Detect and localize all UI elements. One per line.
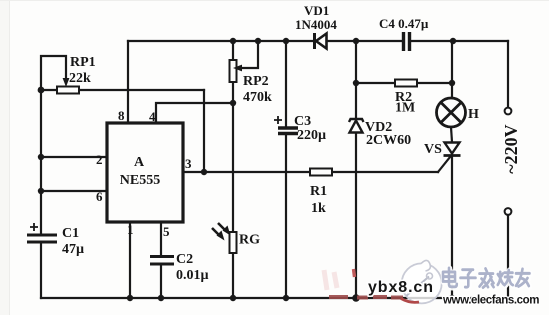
wire bottom rail bbox=[41, 297, 508, 299]
svg-text:RG: RG bbox=[239, 233, 260, 248]
svg-text:VS: VS bbox=[424, 142, 442, 157]
wire pin3 output line bbox=[183, 171, 310, 173]
svg-text:5: 5 bbox=[163, 224, 170, 239]
wire left vertical bbox=[40, 90, 42, 233]
watermark pink smudge bbox=[324, 270, 337, 290]
op-amp U1 NE555 box bbox=[107, 123, 183, 222]
wire C3 vertical bbox=[285, 41, 287, 126]
node rail VD2 bbox=[353, 38, 359, 44]
svg-text:~220V: ~220V bbox=[501, 124, 521, 173]
wire vertical 204 to pin3 line bbox=[203, 90, 205, 172]
node pin6 bbox=[38, 188, 44, 194]
svg-text:0.01µ: 0.01µ bbox=[176, 268, 209, 283]
svg-text:1: 1 bbox=[127, 222, 134, 237]
node gnd pin1 bbox=[127, 295, 133, 301]
node out bbox=[201, 169, 207, 175]
wire RG vertical bbox=[232, 103, 234, 232]
wire right vertical lower bbox=[507, 215, 509, 298]
wire right vertical upper bbox=[507, 41, 509, 107]
node rail RP2 bbox=[230, 38, 236, 44]
svg-text:H: H bbox=[468, 107, 479, 122]
watermark red dashes rail bbox=[329, 295, 403, 300]
svg-text:1k: 1k bbox=[311, 201, 326, 216]
lamp H bbox=[437, 98, 466, 127]
watermark red dash VD2 line bbox=[354, 269, 355, 277]
node RP1 left bbox=[38, 87, 45, 94]
svg-text:C4 0.47µ: C4 0.47µ bbox=[379, 16, 429, 31]
wire pin8 bbox=[127, 41, 129, 123]
potentiometer RP2 bbox=[230, 60, 243, 82]
node gnd C3 bbox=[283, 295, 289, 301]
node RP2 bottom bbox=[230, 100, 236, 106]
wire RP2 top bbox=[232, 41, 234, 60]
svg-text:47µ: 47µ bbox=[62, 242, 84, 257]
wire lamp top bbox=[451, 41, 453, 98]
svg-text:220µ: 220µ bbox=[297, 128, 326, 143]
wire RP2 wiper bbox=[242, 41, 258, 68]
capacitor C3 bbox=[274, 116, 298, 134]
svg-text:4: 4 bbox=[149, 109, 156, 124]
wire pin5 to C2 bbox=[160, 222, 162, 256]
svg-text:C2: C2 bbox=[176, 252, 193, 267]
wire VS to bottom bbox=[451, 156, 453, 298]
wire RP2 bottom bbox=[232, 82, 234, 103]
terminal lower 220V bbox=[505, 208, 512, 215]
wire lamp to VS bbox=[451, 127, 452, 142]
node gnd C2 bbox=[158, 295, 164, 301]
svg-text:1M: 1M bbox=[395, 101, 415, 116]
svg-text:A: A bbox=[134, 155, 145, 170]
wire pin4 bbox=[156, 103, 233, 123]
node R2 left bbox=[353, 80, 359, 86]
scan edge top bbox=[0, 0, 549, 2]
node gnd VS bbox=[449, 295, 455, 301]
svg-text:2: 2 bbox=[96, 152, 103, 167]
svg-text:R1: R1 bbox=[310, 184, 327, 199]
capacitor C4 bbox=[404, 32, 410, 51]
node gnd RG bbox=[230, 295, 236, 301]
svg-text:1N4004: 1N4004 bbox=[295, 17, 337, 32]
svg-text:www.elecfans.com: www.elecfans.com bbox=[442, 295, 539, 307]
capacitor C1 bbox=[27, 223, 57, 242]
scan edge left band bbox=[0, 0, 9, 315]
watermark elecfans characters bbox=[443, 268, 530, 288]
resistor R2 bbox=[395, 80, 417, 87]
svg-text:NE555: NE555 bbox=[120, 173, 160, 188]
node rail lamp bbox=[450, 38, 456, 44]
wire pin6 stub bbox=[41, 190, 107, 192]
wire pin1 bbox=[129, 222, 131, 298]
resistor R1 bbox=[310, 169, 332, 176]
photoresistor RG bbox=[212, 223, 237, 253]
node rail wiper bbox=[255, 38, 261, 44]
capacitor C2 bbox=[150, 257, 174, 265]
wire R2 horizontal bbox=[356, 82, 395, 84]
wire pin2 stub bbox=[41, 156, 107, 158]
potentiometer RP1 bbox=[57, 78, 79, 94]
svg-text:VD1: VD1 bbox=[304, 3, 329, 18]
wire top rail right segment bbox=[411, 40, 508, 42]
wire VS gate diagonal bbox=[438, 157, 450, 172]
svg-text:C1: C1 bbox=[62, 226, 79, 241]
watermark stamp circle bbox=[401, 260, 442, 303]
svg-text:22k: 22k bbox=[69, 71, 91, 86]
wire RP1 horizontal bbox=[41, 89, 57, 91]
svg-text:ybx8.cn: ybx8.cn bbox=[368, 279, 434, 296]
svg-text:8: 8 bbox=[118, 108, 125, 123]
wire top rail mid segment bbox=[327, 40, 402, 42]
terminal upper 220V bbox=[505, 108, 512, 115]
node gnd VD2 bbox=[352, 294, 360, 302]
wire top rail left segment bbox=[128, 40, 314, 42]
svg-text:RP2: RP2 bbox=[243, 74, 269, 89]
node R2 right bbox=[449, 80, 455, 86]
zener diode VD2 bbox=[349, 119, 364, 133]
node pin2 bbox=[38, 154, 44, 160]
svg-text:RP1: RP1 bbox=[70, 55, 96, 70]
thyristor VS bbox=[444, 143, 461, 156]
svg-text:6: 6 bbox=[96, 189, 103, 204]
node rail C3 bbox=[283, 38, 289, 44]
svg-text:470k: 470k bbox=[243, 90, 272, 105]
wire RP1 loop bbox=[41, 56, 66, 90]
svg-text:2CW60: 2CW60 bbox=[366, 133, 411, 148]
svg-text:C3: C3 bbox=[294, 114, 311, 129]
wire VD2 vertical bbox=[355, 41, 357, 118]
svg-text:3: 3 bbox=[185, 156, 192, 171]
diode VD1 bbox=[315, 33, 327, 49]
